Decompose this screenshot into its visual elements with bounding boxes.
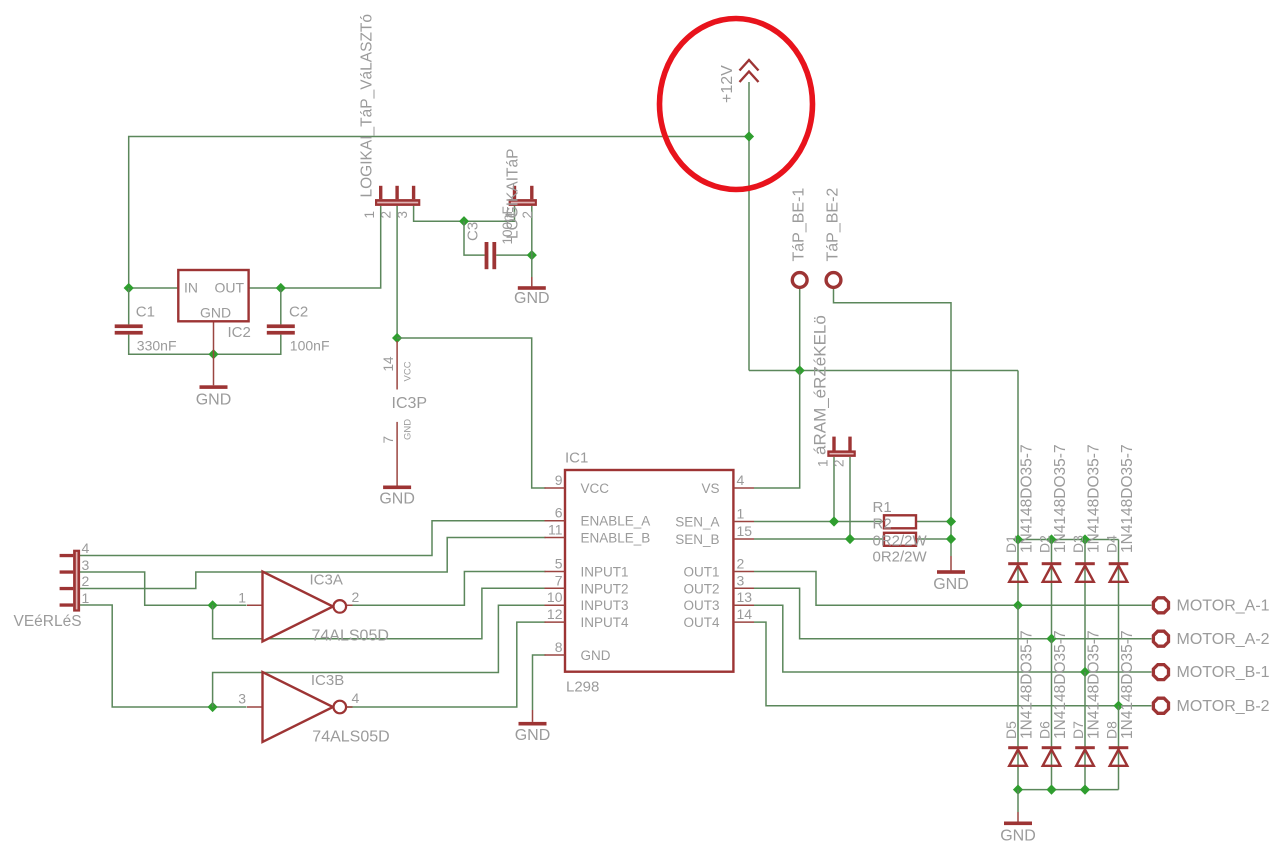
connector VEERLES: [14, 540, 90, 630]
diode D4: [1104, 444, 1137, 581]
svg-text:D3: D3: [1070, 535, 1086, 553]
node regulator ground junction: [208, 349, 218, 359]
svg-text:INPUT2: INPUT2: [581, 581, 629, 596]
wire C1 C2 bottom ground row: [129, 335, 281, 355]
svg-text:D1: D1: [1003, 535, 1019, 553]
svg-text:14: 14: [737, 606, 753, 622]
diode D3: [1070, 444, 1103, 581]
node +12V junction: [744, 131, 754, 141]
svg-text:13: 13: [737, 589, 753, 605]
svg-text:MOTOR_A-2: MOTOR_A-2: [1177, 631, 1270, 648]
node C1 input junction: [124, 283, 134, 293]
annotation red ellipse: [660, 19, 813, 190]
svg-text:1: 1: [362, 211, 377, 219]
node MOTOR_A-1 junction: [1013, 600, 1023, 610]
svg-text:D2: D2: [1037, 535, 1053, 553]
wire rail down to diode top rail: [1017, 371, 1019, 540]
svg-text:4: 4: [82, 540, 90, 556]
wire diode bottom rail: [1018, 789, 1119, 791]
svg-text:8: 8: [555, 639, 563, 655]
wire D3 cathode drop: [1084, 540, 1086, 673]
diode D6: [1037, 630, 1070, 765]
svg-text:C1: C1: [136, 304, 155, 321]
node bottom rail D7: [1080, 785, 1090, 795]
svg-text:MOTOR_A-1: MOTOR_A-1: [1177, 598, 1270, 615]
resistor R1: [873, 499, 917, 528]
svg-text:1N4148DO35-7: 1N4148DO35-7: [1019, 444, 1036, 553]
svg-text:D8: D8: [1104, 721, 1120, 739]
node MOTOR_B-1 junction: [1080, 667, 1090, 677]
wire VEERLES pin2 to ENABLE_B: [80, 538, 546, 589]
svg-text:1N4148DO35-7: 1N4148DO35-7: [1019, 630, 1036, 739]
connector ARAM_ERZEKELO: [811, 315, 856, 467]
capacitor C3: [465, 206, 516, 269]
wire gnd stub ic1: [532, 710, 534, 722]
wire C1 top lead: [128, 288, 130, 324]
wire regulator input row: [129, 287, 179, 289]
svg-text:14: 14: [381, 356, 396, 372]
svg-text:IC3P: IC3P: [392, 395, 428, 412]
svg-text:7: 7: [381, 436, 396, 444]
svg-text:GND: GND: [403, 419, 414, 440]
svg-text:2: 2: [520, 211, 535, 219]
svg-text:6: 6: [555, 505, 563, 521]
svg-text:1N4148DO35-7: 1N4148DO35-7: [1086, 630, 1103, 739]
wire D2 cathode drop: [1051, 540, 1053, 639]
capacitor C1: [115, 304, 177, 354]
wire C3 left lead: [464, 221, 485, 255]
svg-text:15: 15: [737, 523, 753, 539]
node C2 output junction: [276, 283, 286, 293]
svg-text:MOTOR_B-2: MOTOR_B-2: [1177, 698, 1270, 715]
svg-text:GND: GND: [1000, 828, 1036, 845]
svg-text:D6: D6: [1037, 721, 1053, 739]
diode D1: [1003, 444, 1036, 581]
pad MOTOR_B-2: [1153, 698, 1269, 715]
wire IC1 GND pin8 to gnd symbol: [533, 655, 546, 710]
svg-text:IC3A: IC3A: [310, 572, 343, 589]
wire TAP_BE-1 drop to rail: [799, 289, 801, 371]
ground symbol under diodes: [1000, 822, 1036, 845]
pad MOTOR_B-1: [1153, 664, 1269, 681]
svg-text:2: 2: [378, 211, 393, 219]
wire +12V symbol vertical down to rail corner: [748, 82, 750, 371]
wire logikaitap pin2 down to gnd: [531, 206, 533, 277]
svg-text:D4: D4: [1104, 535, 1120, 553]
wire gnd stub logic: [531, 277, 533, 286]
svg-text:OUT2: OUT2: [683, 581, 719, 596]
ground symbol under IC3P: [379, 486, 415, 508]
svg-text:D7: D7: [1070, 721, 1086, 739]
IC2 voltage regulator: [178, 270, 251, 341]
svg-text:TáP_BE-2: TáP_BE-2: [824, 188, 841, 262]
svg-text:VCC: VCC: [581, 481, 610, 496]
wire TAP_BE-2 to sense column: [834, 289, 952, 556]
IC1 pin names: [581, 481, 720, 663]
svg-text:74ALS05D: 74ALS05D: [312, 628, 389, 645]
svg-text:C3: C3: [465, 222, 482, 241]
svg-text:5: 5: [555, 556, 563, 572]
svg-text:1: 1: [82, 590, 90, 606]
gate IC3P power pins: [381, 341, 427, 486]
IC1 pin stubs right: [733, 488, 754, 622]
power symbol +12V: [719, 60, 759, 103]
wire R1 right to sense column: [916, 521, 951, 523]
svg-text:ENABLE_A: ENABLE_A: [581, 514, 651, 529]
svg-text:VEéRLéS: VEéRLéS: [14, 613, 82, 630]
wire D5 cathode up to motor row: [1017, 605, 1019, 789]
svg-text:74ALS05D: 74ALS05D: [312, 729, 389, 746]
svg-text:GND: GND: [581, 648, 611, 663]
node diode rail D1: [1013, 534, 1023, 544]
svg-text:IN: IN: [184, 280, 198, 296]
svg-text:LOGIKAI_TáP_VáLASZTó: LOGIKAI_TáP_VáLASZTó: [359, 14, 376, 198]
svg-text:GND: GND: [196, 392, 232, 409]
svg-text:IC2: IC2: [228, 324, 251, 341]
ground symbol under C3: [514, 286, 550, 307]
ground symbol under sense resistors: [933, 570, 969, 593]
wire OUT1 to MOTOR_A-1: [754, 572, 1152, 606]
wire gnd stub diodes: [1017, 812, 1019, 822]
wire D4 cathode drop: [1118, 540, 1120, 706]
diode D5: [1003, 630, 1036, 765]
diode D8: [1104, 630, 1137, 765]
svg-text:+12V: +12V: [719, 65, 736, 103]
wire +12V horizontal rail to diodes: [749, 370, 1018, 372]
svg-text:3: 3: [238, 691, 246, 707]
svg-text:OUT4: OUT4: [683, 615, 719, 630]
connector LOGIKAITAP: [503, 149, 537, 239]
svg-text:10: 10: [547, 589, 563, 605]
pad MOTOR_A-1: [1153, 598, 1269, 615]
svg-text:áRAM_éRZéKELö: áRAM_éRZéKELö: [811, 315, 830, 455]
svg-text:ENABLE_B: ENABLE_B: [581, 531, 651, 546]
svg-text:C2: C2: [289, 304, 308, 321]
svg-text:1N4148DO35-7: 1N4148DO35-7: [1052, 630, 1069, 739]
wire bottom rail to gnd: [1017, 790, 1019, 812]
svg-text:9: 9: [555, 472, 563, 488]
node sense column SEN_A: [946, 516, 956, 526]
svg-text:100nF: 100nF: [290, 338, 330, 354]
wire +12V top rail from C1 junction to +12V junction: [129, 137, 749, 289]
wire ARAM pin2 down: [849, 457, 851, 539]
svg-text:100nF: 100nF: [500, 206, 515, 244]
svg-text:2: 2: [352, 589, 360, 605]
svg-text:0R2/2W: 0R2/2W: [873, 548, 928, 565]
svg-text:GND: GND: [514, 290, 550, 307]
svg-text:2: 2: [832, 459, 847, 467]
svg-text:R1: R1: [873, 499, 892, 516]
svg-text:SEN_B: SEN_B: [675, 532, 719, 547]
wire ARAM pin1 down: [833, 457, 835, 522]
svg-text:11: 11: [548, 522, 563, 538]
wire D6 cathode up to motor row: [1051, 639, 1053, 790]
svg-text:1: 1: [737, 506, 745, 522]
wire C3 right lead: [496, 254, 532, 256]
diode D2: [1037, 444, 1070, 581]
node bottom rail D6: [1046, 785, 1056, 795]
wire vcc junction to IC1 VCC pin 9: [397, 338, 545, 488]
inverter IC3B: [238, 672, 389, 746]
inverter IC3A: [238, 572, 389, 645]
svg-text:INPUT3: INPUT3: [581, 598, 629, 613]
pad TAP_BE-2: [824, 188, 841, 288]
node MOTOR_B-2 junction: [1113, 701, 1123, 711]
node SEN_A junction pin1: [829, 516, 839, 526]
ground symbol under IC1 pin 8: [515, 722, 551, 744]
node SEN_B junction pin2: [845, 534, 855, 544]
svg-text:3: 3: [395, 211, 410, 219]
svg-text:3: 3: [82, 557, 90, 573]
svg-text:4: 4: [352, 690, 360, 706]
svg-text:OUT3: OUT3: [683, 598, 719, 613]
svg-text:OUT: OUT: [215, 280, 245, 296]
svg-text:2: 2: [737, 556, 745, 572]
svg-text:1N4148DO35-7: 1N4148DO35-7: [1119, 444, 1136, 553]
wire IC3B output to INPUT4: [346, 622, 545, 707]
pad TAP_BE-1: [791, 188, 808, 288]
connector LOGIKAI_TAP_VALASZTO: [359, 14, 421, 219]
wire OUT4 to MOTOR_B-2: [754, 622, 1152, 706]
resistor R2: [873, 515, 928, 565]
wire valaszto pin3 to logikaitap pin1: [414, 206, 515, 222]
node C3 top junction: [459, 216, 469, 226]
svg-text:OUT1: OUT1: [683, 565, 719, 580]
svg-text:GND: GND: [200, 305, 231, 321]
IC1 L298: [565, 450, 733, 696]
svg-text:SEN_A: SEN_A: [675, 515, 719, 530]
pad MOTOR_A-2: [1153, 631, 1269, 648]
svg-text:1: 1: [238, 590, 246, 606]
wire VS branch down and left to pin 4: [754, 371, 800, 489]
svg-text:VCC: VCC: [403, 361, 414, 381]
svg-text:D5: D5: [1003, 721, 1019, 739]
node IC3P vcc junction: [392, 333, 402, 343]
svg-text:GND: GND: [379, 491, 415, 508]
svg-text:TáP_BE-1: TáP_BE-1: [791, 188, 808, 262]
svg-text:VS: VS: [701, 481, 719, 496]
svg-text:R2: R2: [873, 515, 892, 532]
wire OUT3 to MOTOR_B-1: [754, 605, 1152, 672]
node MOTOR_A-2 junction: [1046, 634, 1056, 644]
node diode rail D2: [1046, 534, 1056, 544]
svg-text:INPUT4: INPUT4: [581, 615, 630, 630]
wire D7 cathode up to motor row: [1084, 672, 1086, 790]
ground symbol under IC2: [196, 385, 232, 408]
wire IC3A output to INPUT1: [346, 572, 545, 606]
node C3 gnd junction: [527, 250, 537, 260]
node bottom rail D5: [1013, 785, 1023, 795]
svg-text:330nF: 330nF: [137, 338, 177, 354]
node IC3B input junction: [208, 702, 218, 712]
wire OUT2 to MOTOR_A-2: [754, 588, 1152, 638]
svg-text:4: 4: [737, 472, 745, 488]
svg-text:IC3B: IC3B: [311, 672, 344, 689]
wire gnd stub sense: [950, 556, 952, 570]
wire valaszto pin2 down to IC3P vcc junction: [396, 206, 398, 338]
svg-text:L298: L298: [566, 679, 599, 696]
svg-text:GND: GND: [933, 576, 969, 593]
svg-text:2: 2: [82, 573, 90, 589]
wire D8 cathode up to motor row: [1118, 706, 1120, 790]
IC1 pin numbers left: [547, 472, 563, 655]
svg-text:1N4148DO35-7: 1N4148DO35-7: [1086, 444, 1103, 553]
node sense column SEN_B: [946, 534, 956, 544]
svg-text:INPUT1: INPUT1: [581, 565, 629, 580]
wire IC3B input feed to INPUT3: [213, 605, 546, 707]
wire IC3A input feed to INPUT2: [213, 588, 546, 639]
svg-text:1: 1: [816, 459, 831, 467]
svg-text:0R2/2W: 0R2/2W: [873, 532, 928, 549]
svg-text:1N4148DO35-7: 1N4148DO35-7: [1119, 630, 1136, 739]
diode D7: [1070, 630, 1103, 765]
IC1 pin stubs left: [545, 488, 566, 655]
svg-text:GND: GND: [515, 727, 551, 744]
node TAP_BE-1 rail junction: [795, 365, 805, 375]
svg-text:12: 12: [547, 606, 563, 622]
wire D1 cathode drop: [1017, 540, 1019, 606]
wire C2 top lead: [280, 288, 282, 324]
wire R2 right to sense column: [916, 538, 951, 540]
wire SEN_B to R2 left: [754, 538, 884, 540]
wire SEN_A to R1 left: [754, 521, 884, 523]
IC1 pin numbers right: [737, 472, 753, 622]
node IC3A input junction: [208, 600, 218, 610]
wire VEERLES pin3 to IC3A input: [80, 572, 247, 605]
node diode rail D3: [1080, 534, 1090, 544]
svg-text:1N4148DO35-7: 1N4148DO35-7: [1052, 444, 1069, 553]
capacitor C2: [267, 304, 330, 354]
wire VEERLES pin4 to ENABLE_A: [80, 521, 546, 556]
wire VEERLES pin1 to IC3B input: [80, 605, 247, 707]
wire diode top rail: [1018, 539, 1119, 541]
svg-text:3: 3: [737, 572, 745, 588]
svg-text:MOTOR_B-1: MOTOR_B-1: [1177, 664, 1270, 681]
wire junction to gnd symbol: [213, 354, 215, 385]
wire valaszto pin1 down to regulator output row: [249, 206, 381, 288]
svg-text:IC1: IC1: [565, 450, 588, 467]
wire IC2 gnd pin to junction: [213, 321, 215, 354]
svg-text:7: 7: [555, 572, 563, 588]
